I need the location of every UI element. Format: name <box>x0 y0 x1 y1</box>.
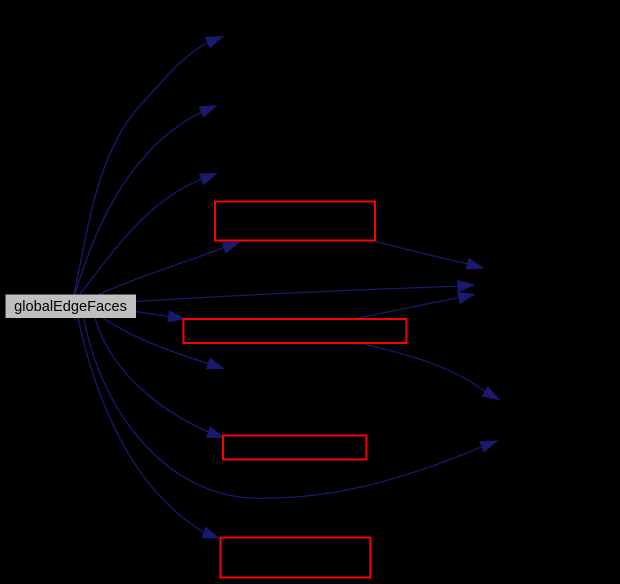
edge H: globalEdgeFaces -> callee node N6 <box>84 318 482 498</box>
arrowhead H <box>480 441 497 452</box>
edge B: globalEdgeFaces -> callee node N2 <box>75 112 202 294</box>
edge D: globalEdgeFaces -> red node R1 <box>99 248 224 295</box>
arrowhead L <box>458 292 475 303</box>
red node R1 (truncated callee, two lines) <box>215 202 375 241</box>
svg-text:globalEdgeFaces: globalEdgeFaces <box>14 299 127 315</box>
red node R2 (truncated callee) <box>184 319 407 343</box>
red node R4 (truncated callee, two lines) <box>221 538 371 578</box>
edge E: globalEdgeFaces -> red node R2 <box>136 312 169 317</box>
arrowhead J <box>458 281 474 292</box>
edge K: red node R1 -> callee node N4b <box>375 242 468 264</box>
edge A: globalEdgeFaces -> callee node N1 <box>74 43 208 294</box>
arrowhead A <box>206 37 223 48</box>
arrowhead B <box>199 106 216 117</box>
edge F: globalEdgeFaces -> callee node N5 <box>103 318 208 364</box>
arrowhead F <box>207 358 224 369</box>
arrowhead D <box>222 242 239 252</box>
arrowhead C <box>200 174 217 185</box>
arrowhead M <box>482 387 499 400</box>
edge M: red node R2 -> callee node N6 <box>364 344 485 392</box>
arrowhead G <box>207 427 224 438</box>
edge J: globalEdgeFaces -> callee node N4 <box>136 286 458 301</box>
edge L: red node R2 -> callee node N4 <box>357 298 457 318</box>
node globalEdgeFaces (grey root node) <box>6 295 137 319</box>
edge I: globalEdgeFaces -> red node R4 <box>78 318 204 533</box>
arrowhead I <box>202 527 219 538</box>
edge G: globalEdgeFaces -> red node R3 <box>95 318 209 432</box>
edge C: globalEdgeFaces -> callee node N3 <box>80 179 202 294</box>
red node R3 (truncated callee) <box>223 436 367 460</box>
arrowhead E <box>168 311 185 322</box>
arrowhead K <box>466 259 483 270</box>
